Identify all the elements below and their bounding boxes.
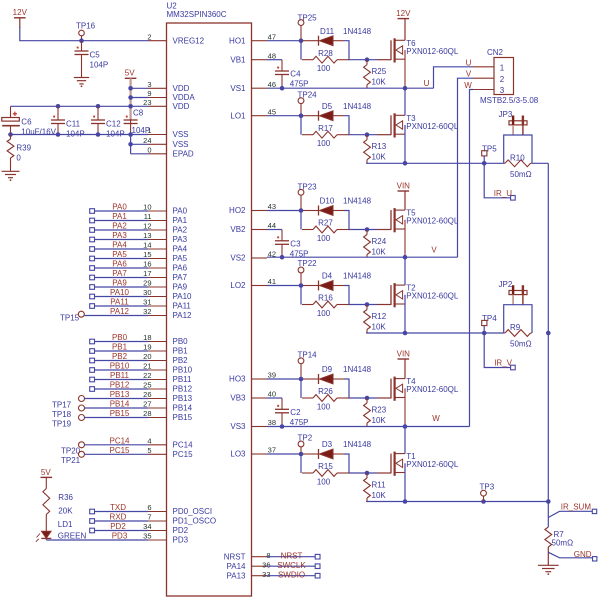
svg-text:1N4148: 1N4148 xyxy=(343,440,372,449)
svg-text:VREG12: VREG12 xyxy=(173,36,205,45)
svg-text:CN2: CN2 xyxy=(487,48,504,57)
svg-text:R26: R26 xyxy=(318,387,333,396)
svg-text:31: 31 xyxy=(143,298,151,307)
capacitor C6 10uF/16V electrolytic xyxy=(2,106,57,136)
testpoint TP14 xyxy=(298,350,318,379)
pin 6 PD0_OSCI lead xyxy=(147,503,212,516)
transistor T4 PXN012-60QL high side xyxy=(377,377,459,427)
svg-text:VIN: VIN xyxy=(397,182,411,191)
svg-text:PD1_OSCO: PD1_OSCO xyxy=(173,517,217,526)
svg-text:LO1: LO1 xyxy=(230,111,246,120)
pin 38 VS3 lead xyxy=(230,418,276,431)
pin 33 PA13 lead xyxy=(227,570,271,580)
transistor T6 PXN012-60QL high side xyxy=(377,38,459,88)
svg-text:PC15: PC15 xyxy=(109,446,130,455)
resistor R16 100 xyxy=(302,294,349,318)
svg-text:PA10: PA10 xyxy=(110,288,130,297)
port and wire net PA11 xyxy=(90,298,148,309)
svg-text:PB13: PB13 xyxy=(173,394,193,403)
svg-text:PB0: PB0 xyxy=(112,333,128,342)
svg-text:PD3: PD3 xyxy=(112,532,128,541)
svg-text:R10: R10 xyxy=(510,153,525,162)
wire W gate node xyxy=(267,377,303,398)
svg-text:R25: R25 xyxy=(372,67,387,76)
power 12V flag above T6 xyxy=(396,9,411,40)
svg-text:1N4148: 1N4148 xyxy=(343,102,372,111)
diode D3 1N4148 xyxy=(303,440,372,459)
svg-text:PXN012-60QL: PXN012-60QL xyxy=(406,460,459,469)
pin 4 PC14 lead xyxy=(147,437,193,450)
pin 7 PD1_OSCO lead xyxy=(147,513,216,526)
wire T1 drain to phase rail xyxy=(404,427,406,454)
testpoint TP24 xyxy=(298,91,318,116)
svg-text:TP19: TP19 xyxy=(52,420,72,429)
pin 17 PA7 lead xyxy=(143,269,187,282)
svg-text:1N4148: 1N4148 xyxy=(343,27,372,36)
port and wire net PA1 xyxy=(90,212,148,223)
resistor R36 20K xyxy=(43,477,74,515)
svg-text:18: 18 xyxy=(143,333,151,342)
svg-text:R9: R9 xyxy=(510,323,521,332)
testpoint TP23 xyxy=(298,182,318,210)
svg-text:48: 48 xyxy=(268,51,276,60)
jumper JP2 xyxy=(499,280,528,305)
power 12V flag top-left xyxy=(13,8,28,28)
svg-text:PB12: PB12 xyxy=(110,381,130,390)
svg-text:C3: C3 xyxy=(290,240,301,249)
svg-text:R11: R11 xyxy=(372,480,387,489)
pin 26 PB13 lead xyxy=(143,390,192,403)
svg-text:VSS: VSS xyxy=(173,130,189,139)
svg-text:IR_SUM: IR_SUM xyxy=(561,502,592,511)
svg-text:41: 41 xyxy=(268,277,276,286)
transistor T1 PXN012-60QL low side xyxy=(377,452,459,476)
wire JP2 to shunt xyxy=(504,305,532,333)
svg-text:TP20: TP20 xyxy=(61,447,81,456)
svg-text:VDD: VDD xyxy=(173,102,190,111)
svg-text:1N4148: 1N4148 xyxy=(343,197,372,206)
testpoint TP25 xyxy=(298,13,318,40)
svg-text:38: 38 xyxy=(268,418,276,427)
svg-text:PB11: PB11 xyxy=(173,375,193,384)
port and wire net PB0 xyxy=(90,333,148,344)
svg-text:1N4148: 1N4148 xyxy=(343,365,372,374)
wire diode to gate xyxy=(344,379,377,400)
svg-text:R17: R17 xyxy=(318,124,333,133)
resistor R12 10K pulldown xyxy=(364,305,371,334)
power VIN flag above T5 xyxy=(397,182,411,211)
svg-text:IR_V: IR_V xyxy=(494,359,512,368)
svg-text:TP4: TP4 xyxy=(482,314,497,323)
svg-text:R13: R13 xyxy=(372,142,387,151)
port and wire net PB11 xyxy=(90,371,148,382)
svg-text:PA4: PA4 xyxy=(112,241,127,250)
pin 2 CN2 lead xyxy=(473,77,494,79)
svg-text:PA2: PA2 xyxy=(173,226,188,235)
svg-text:26: 26 xyxy=(143,390,151,399)
svg-text:C12: C12 xyxy=(106,120,121,129)
svg-text:PA6: PA6 xyxy=(112,260,127,269)
capacitor C5 104P xyxy=(75,41,109,78)
wire diode to gate xyxy=(344,116,377,137)
svg-text:100: 100 xyxy=(317,309,331,318)
port and wire net PA2 xyxy=(90,222,148,233)
svg-text:PA3: PA3 xyxy=(112,231,127,240)
svg-text:TP18: TP18 xyxy=(52,410,72,419)
svg-text:50mΩ: 50mΩ xyxy=(510,170,532,179)
resistor R24 10K pulldown xyxy=(364,230,387,258)
pin 3 CN2 lead xyxy=(473,89,494,91)
testpoint TP2 xyxy=(298,434,313,455)
svg-text:PB2: PB2 xyxy=(173,356,189,365)
svg-text:D3: D3 xyxy=(322,440,333,449)
svg-text:10K: 10K xyxy=(372,322,387,331)
pin 48 VB1 lead xyxy=(230,51,276,64)
svg-text:PA0: PA0 xyxy=(173,207,188,216)
svg-text:PB10: PB10 xyxy=(173,366,193,375)
pin 14 PA4 lead xyxy=(143,241,187,254)
capacitor C2 475P bootstrap xyxy=(267,398,308,429)
transistor T2 PXN012-60QL low side xyxy=(377,283,459,307)
svg-text:R12: R12 xyxy=(372,312,387,321)
resistor R28 100 xyxy=(302,49,349,73)
svg-text:PA4: PA4 xyxy=(173,245,188,254)
svg-text:3: 3 xyxy=(500,86,505,95)
wire phase rail U xyxy=(267,79,434,90)
IC U2 MM32SPIN360C body xyxy=(167,2,252,597)
resistor R27 100 xyxy=(302,219,349,243)
svg-text:TP15: TP15 xyxy=(60,314,80,323)
svg-text:U: U xyxy=(466,58,472,67)
svg-text:8: 8 xyxy=(266,551,270,560)
wire JP3 to shunt xyxy=(504,135,532,163)
svg-text:1N4148: 1N4148 xyxy=(343,272,372,281)
svg-text:PD0_OSCI: PD0_OSCI xyxy=(173,507,213,516)
wire W low gate node xyxy=(267,452,303,473)
svg-text:C4: C4 xyxy=(290,70,301,79)
pin 31 PA11 lead xyxy=(143,298,191,311)
svg-text:5V: 5V xyxy=(41,468,51,477)
pin 5 PC15 lead xyxy=(147,446,193,459)
wire 5V stem to VDD pins xyxy=(128,78,148,120)
svg-text:RXD: RXD xyxy=(110,513,127,522)
port and wire net PB10 xyxy=(90,362,148,373)
testpoint TP22 xyxy=(298,259,318,286)
testpoint TP19 on net PB15 xyxy=(52,409,148,429)
svg-text:GREEN: GREEN xyxy=(58,532,87,541)
pin 11 PA1 lead xyxy=(144,212,188,225)
testpoint TP5 xyxy=(482,145,498,166)
svg-text:D9: D9 xyxy=(322,365,333,374)
wire U sense rail xyxy=(366,161,548,166)
svg-text:D11: D11 xyxy=(320,27,335,36)
wire phase rail W xyxy=(267,414,470,429)
svg-text:PA10: PA10 xyxy=(173,292,193,301)
wire U low gate node xyxy=(267,113,303,134)
diode D10 1N4148 xyxy=(303,197,372,216)
svg-text:PA2: PA2 xyxy=(112,222,127,231)
svg-text:PA12: PA12 xyxy=(110,307,130,316)
diode D9 1N4148 xyxy=(303,365,372,384)
capacitor C11 104P xyxy=(51,106,85,138)
svg-text:VSS: VSS xyxy=(173,140,189,149)
wire T3 source to sense rail xyxy=(404,125,406,163)
wire and port net SWCLK xyxy=(267,561,320,570)
svg-text:PXN012-60QL: PXN012-60QL xyxy=(406,385,459,394)
diode D4 1N4148 xyxy=(303,272,372,291)
port and wire net PD2 xyxy=(90,522,148,533)
svg-text:43: 43 xyxy=(268,202,276,211)
svg-text:2: 2 xyxy=(500,75,505,84)
wire sense summing rail vertical xyxy=(546,163,551,527)
wire and port net IR_U xyxy=(484,163,515,200)
transistor T3 PXN012-60QL low side xyxy=(377,113,459,137)
svg-text:C5: C5 xyxy=(90,51,101,60)
resistor R39 0 xyxy=(7,135,32,172)
svg-text:PA14: PA14 xyxy=(227,562,247,571)
net label PD3 wire from LED xyxy=(46,532,148,541)
svg-text:PC14: PC14 xyxy=(109,436,130,445)
pin 15 PA5 lead xyxy=(143,250,187,263)
port and wire net PA5 xyxy=(90,250,148,261)
wire and port net NRST xyxy=(267,551,320,560)
pin 43 HO2 lead xyxy=(229,202,276,215)
svg-text:PA0: PA0 xyxy=(112,203,127,212)
svg-text:10K: 10K xyxy=(372,491,387,500)
pin 27 PB14 lead xyxy=(143,400,192,413)
LED LD1 GREEN xyxy=(36,515,87,542)
svg-text:LO2: LO2 xyxy=(230,281,246,290)
svg-text:PA7: PA7 xyxy=(112,269,127,278)
svg-text:PXN012-60QL: PXN012-60QL xyxy=(406,47,459,56)
svg-text:PB12: PB12 xyxy=(173,385,193,394)
pin 44 VB2 lead xyxy=(230,221,276,234)
svg-text:PA7: PA7 xyxy=(173,273,188,282)
svg-text:IR_U: IR_U xyxy=(494,189,512,198)
svg-text:SWCLK: SWCLK xyxy=(277,561,306,570)
testpoint TP21 on net PC15 xyxy=(61,446,148,465)
svg-text:VS1: VS1 xyxy=(230,84,246,93)
svg-text:104P: 104P xyxy=(132,126,151,135)
svg-text:R15: R15 xyxy=(318,462,333,471)
port and wire net PB2 xyxy=(90,352,148,363)
svg-text:PXN012-60QL: PXN012-60QL xyxy=(406,217,459,226)
svg-text:TP21: TP21 xyxy=(61,456,81,465)
svg-text:3: 3 xyxy=(147,80,151,89)
svg-text:23: 23 xyxy=(143,98,151,107)
pin 29 PA9 lead xyxy=(143,279,187,292)
port and wire net PA0 xyxy=(90,203,148,214)
port and wire net PA4 xyxy=(90,241,148,252)
capacitor C8 104P xyxy=(124,109,151,135)
svg-text:R36: R36 xyxy=(58,493,73,502)
svg-text:PB0: PB0 xyxy=(173,337,189,346)
pin 10 PA0 lead xyxy=(143,203,187,216)
pin 25 PB12 lead xyxy=(143,381,192,394)
svg-text:D4: D4 xyxy=(322,272,333,281)
svg-text:V: V xyxy=(466,70,472,79)
pin 1 VSS lead xyxy=(147,126,188,139)
wire net V to CN2 pin 2 xyxy=(458,70,474,258)
svg-text:VB1: VB1 xyxy=(230,55,246,64)
svg-text:12V: 12V xyxy=(396,9,411,18)
svg-text:PB1: PB1 xyxy=(112,343,128,352)
svg-text:100: 100 xyxy=(317,478,331,487)
svg-text:10K: 10K xyxy=(372,78,387,87)
svg-text:LD1: LD1 xyxy=(58,520,73,529)
svg-text:PB14: PB14 xyxy=(110,400,130,409)
pin 23 VDD lead xyxy=(143,98,189,111)
ground symbol bottom right xyxy=(538,565,559,575)
svg-text:10K: 10K xyxy=(372,153,387,162)
svg-text:PA3: PA3 xyxy=(173,235,188,244)
pin 1 CN2 lead xyxy=(473,66,494,68)
pin 21 PB10 lead xyxy=(143,362,192,375)
svg-text:PB15: PB15 xyxy=(173,413,193,422)
svg-text:W: W xyxy=(432,414,440,423)
pin 20 PB2 lead xyxy=(143,352,188,365)
port and wire net PA9 xyxy=(90,279,148,290)
svg-text:20: 20 xyxy=(143,352,151,361)
svg-text:50mΩ: 50mΩ xyxy=(510,340,532,349)
pin 36 PA14 lead xyxy=(227,560,271,570)
svg-text:V: V xyxy=(431,245,437,254)
svg-text:VDD: VDD xyxy=(173,84,190,93)
wire 5V rail horizontal xyxy=(11,104,149,109)
power 5V flag lower-left xyxy=(41,468,53,477)
svg-text:PB2: PB2 xyxy=(112,352,128,361)
wire and port net IR_V xyxy=(484,333,515,370)
pin 13 PA3 lead xyxy=(143,231,187,244)
pin 30 PA10 lead xyxy=(143,288,192,301)
svg-text:MSTB2.5/3-5.08: MSTB2.5/3-5.08 xyxy=(480,96,539,105)
svg-text:100: 100 xyxy=(317,403,331,412)
power VIN flag above T4 xyxy=(397,350,411,379)
svg-text:R23: R23 xyxy=(372,405,387,414)
wire and port net IR_SUM xyxy=(548,502,596,517)
svg-text:22: 22 xyxy=(143,371,151,380)
resistor R23 10K pulldown xyxy=(364,398,387,427)
pin 16 PA6 lead xyxy=(143,260,187,273)
power 5V flag xyxy=(125,68,137,78)
svg-text:45: 45 xyxy=(268,107,276,116)
svg-text:12V: 12V xyxy=(13,8,28,17)
svg-text:6: 6 xyxy=(147,503,151,512)
svg-text:TP16: TP16 xyxy=(76,21,96,30)
svg-text:PB1: PB1 xyxy=(173,347,189,356)
svg-text:2: 2 xyxy=(147,32,151,41)
resistor R7 50mOhm xyxy=(545,527,573,548)
pin 47 HO1 lead xyxy=(229,32,276,45)
svg-text:11: 11 xyxy=(144,212,152,221)
svg-text:37: 37 xyxy=(268,446,276,455)
wire T2 drain to phase rail xyxy=(404,257,406,285)
capacitor C4 475P bootstrap xyxy=(267,60,308,91)
svg-text:PC15: PC15 xyxy=(173,450,194,459)
wire V sense rail xyxy=(366,331,504,336)
svg-text:19: 19 xyxy=(143,343,151,352)
pin 41 LO2 lead xyxy=(230,277,276,290)
pin 40 VB3 lead xyxy=(230,390,276,403)
svg-text:10K: 10K xyxy=(372,247,387,256)
wire diode to gate xyxy=(344,41,377,62)
svg-text:C6: C6 xyxy=(21,118,32,127)
pin 3 VDD lead xyxy=(147,80,189,93)
svg-text:34: 34 xyxy=(143,522,151,531)
pin 37 LO3 lead xyxy=(230,446,276,459)
svg-text:33: 33 xyxy=(262,570,270,579)
svg-text:5: 5 xyxy=(147,446,151,455)
svg-text:PA11: PA11 xyxy=(173,302,192,311)
svg-text:100: 100 xyxy=(317,139,331,148)
svg-text:28: 28 xyxy=(143,409,151,418)
resistor R25 10K pulldown xyxy=(364,60,387,88)
wire W sense rail xyxy=(366,499,548,504)
svg-text:475P: 475P xyxy=(290,80,309,89)
resistor R17 100 xyxy=(302,124,349,148)
port and wire net PB1 xyxy=(90,343,148,354)
pin 22 PB11 lead xyxy=(143,371,192,384)
jumper JP3 xyxy=(499,110,528,135)
svg-text:24: 24 xyxy=(143,136,151,145)
svg-text:PC14: PC14 xyxy=(173,440,194,449)
capacitor C12 104P xyxy=(91,106,125,138)
svg-text:12: 12 xyxy=(143,222,151,231)
wire net U to CN2 pin 1 xyxy=(434,58,474,88)
wire 12V to VREG12 pin 2 xyxy=(20,27,148,41)
svg-text:475P: 475P xyxy=(290,418,309,427)
svg-text:9: 9 xyxy=(147,89,151,98)
svg-text:25: 25 xyxy=(143,381,151,390)
svg-text:R39: R39 xyxy=(16,144,31,153)
svg-text:HO2: HO2 xyxy=(229,206,246,215)
resistor R15 100 xyxy=(302,462,349,486)
pin 34 PD2 lead xyxy=(143,522,188,535)
svg-text:PA12: PA12 xyxy=(173,311,193,320)
wire GND rail to VSS pins xyxy=(8,132,148,154)
svg-text:14: 14 xyxy=(143,241,151,250)
svg-text:7: 7 xyxy=(147,513,151,522)
svg-text:VIN: VIN xyxy=(397,350,411,359)
svg-text:44: 44 xyxy=(268,221,276,230)
svg-text:C2: C2 xyxy=(290,408,301,417)
svg-text:1: 1 xyxy=(500,64,505,73)
svg-text:10K: 10K xyxy=(372,416,387,425)
ground below C5 xyxy=(74,78,89,88)
svg-text:PA9: PA9 xyxy=(112,279,127,288)
port and wire net TXD xyxy=(90,503,148,514)
resistor R10 50mOhm shunt xyxy=(504,153,532,179)
svg-text:TXD: TXD xyxy=(110,503,126,512)
pin 8 NRST lead xyxy=(224,551,271,561)
pin 9 VDDA lead xyxy=(147,89,195,102)
port and wire net PA7 xyxy=(90,269,148,280)
svg-text:VB3: VB3 xyxy=(230,394,246,403)
wire V gate node xyxy=(267,208,303,229)
svg-text:PB10: PB10 xyxy=(110,362,130,371)
net label PA12 with testpoint TP15 xyxy=(60,307,148,323)
svg-text:TP25: TP25 xyxy=(298,13,318,22)
testpoint TP3 xyxy=(480,482,495,501)
svg-text:PXN012-60QL: PXN012-60QL xyxy=(406,122,459,131)
svg-text:PD3: PD3 xyxy=(173,536,189,545)
wire T2 source to sense rail xyxy=(404,295,406,333)
pin 39 HO3 lead xyxy=(229,371,276,384)
svg-text:PD2: PD2 xyxy=(173,526,189,535)
wire net W to CN2 pin 3 xyxy=(464,81,473,427)
testpoint TP17 on net PB13 xyxy=(52,390,148,410)
wire V low gate node xyxy=(267,283,303,304)
